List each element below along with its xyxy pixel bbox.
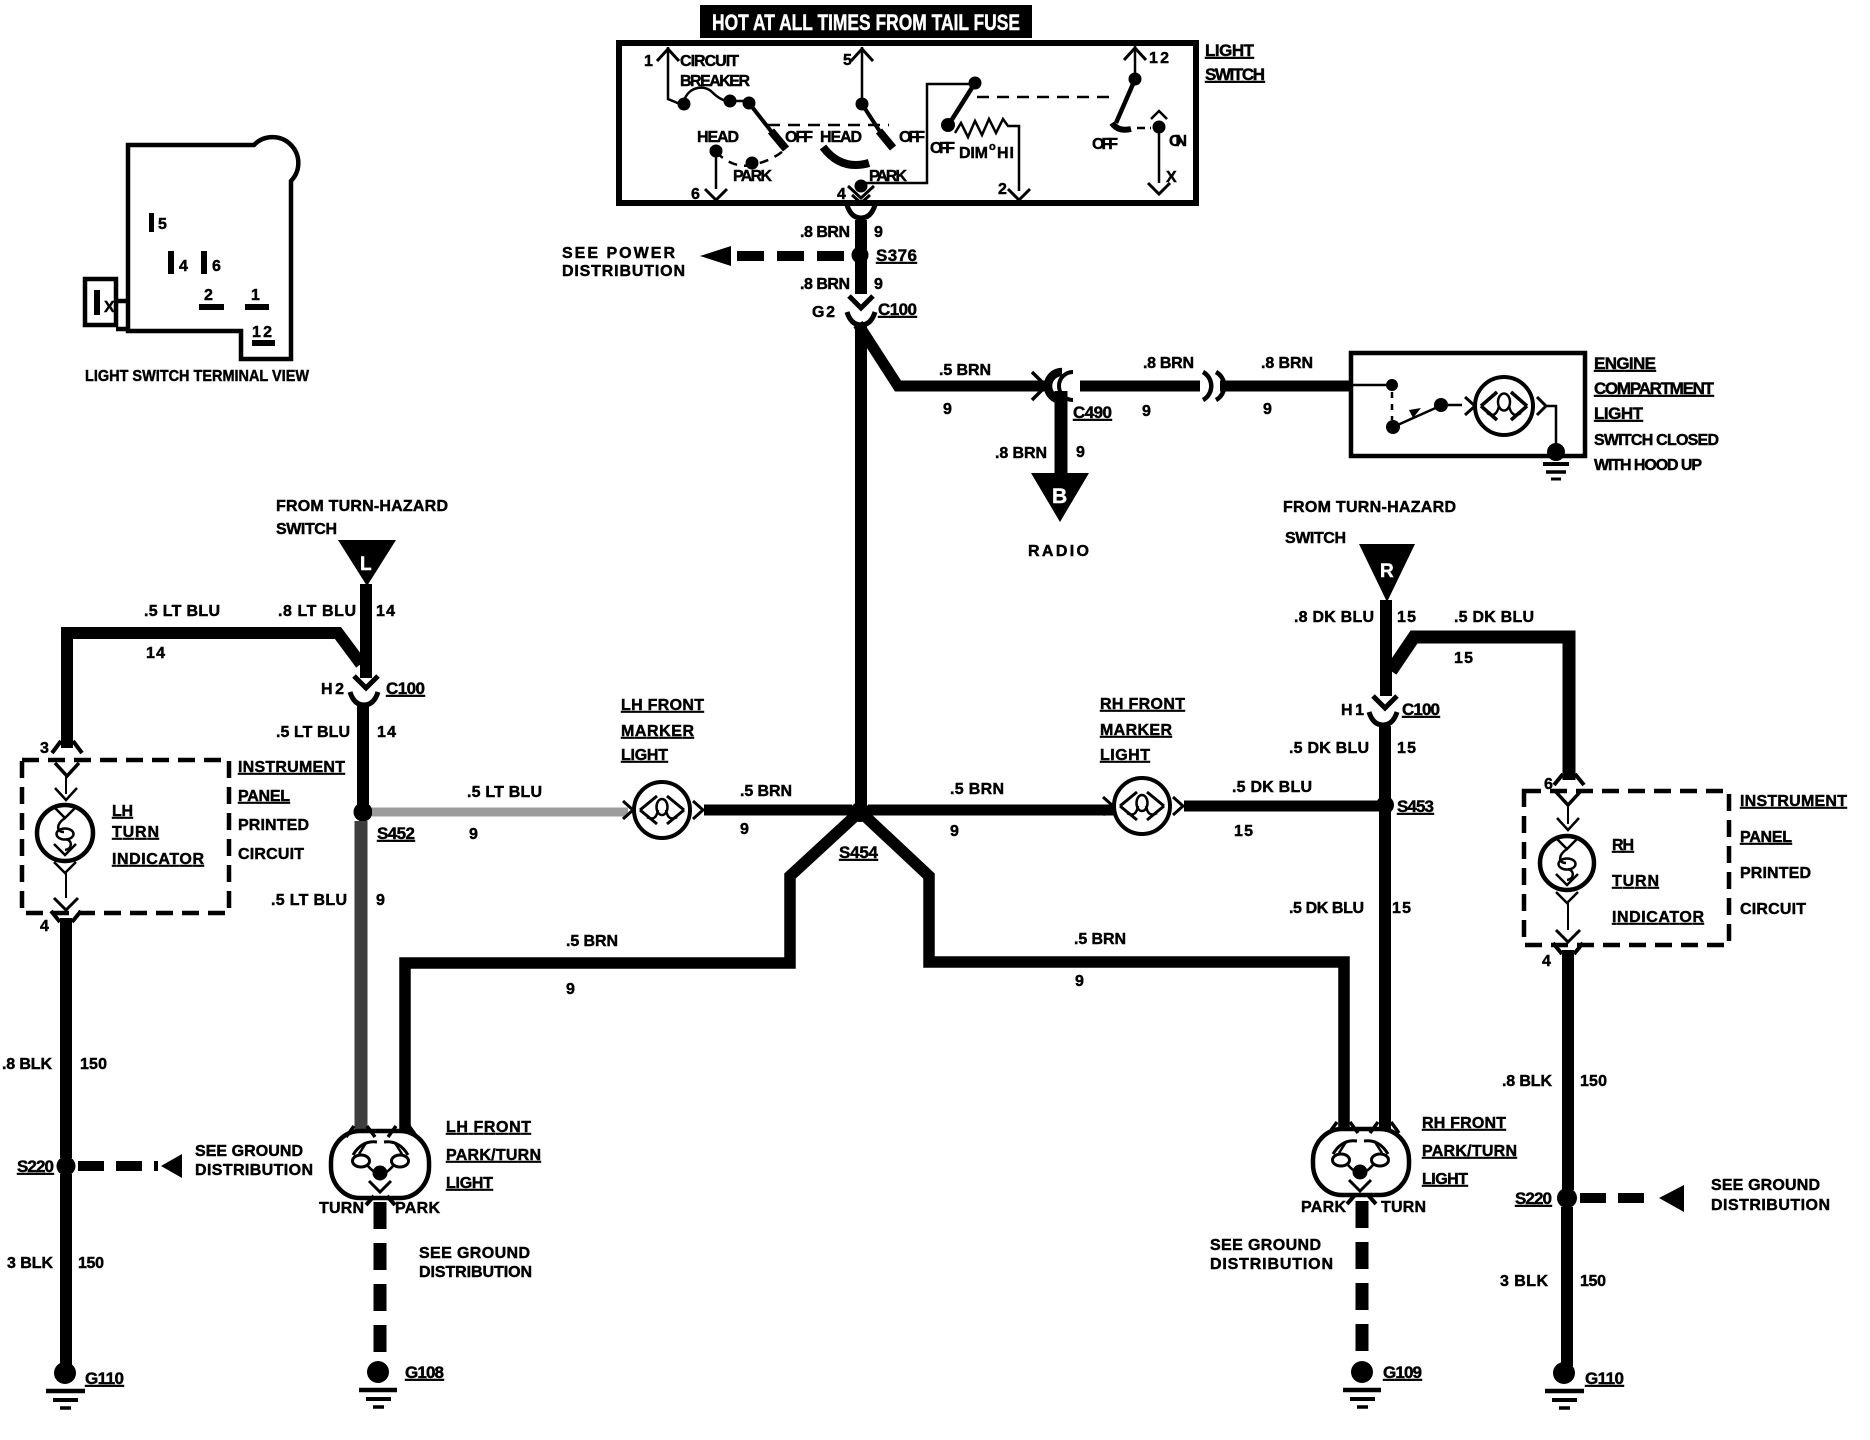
svg-text:RH: RH: [1612, 837, 1634, 854]
svg-text:14: 14: [146, 645, 165, 662]
svg-text:.8 LT BLU: .8 LT BLU: [278, 603, 356, 620]
svg-text:LH FRONT: LH FRONT: [621, 697, 704, 714]
S454 branch left to LH park wire: [405, 817, 854, 1131]
engine light switch: [1352, 379, 1462, 434]
label .5 BRN 9: [939, 362, 991, 418]
svg-text:TURN: TURN: [112, 824, 159, 841]
svg-text:SWITCH: SWITCH: [1285, 530, 1346, 547]
ground G109: [1343, 1361, 1422, 1407]
svg-text:BREAKER: BREAKER: [680, 73, 750, 90]
wire S454 to RH marker: [868, 805, 1114, 816]
connector C490: [1032, 372, 1151, 422]
svg-text:CIRCUIT: CIRCUIT: [1740, 901, 1806, 918]
svg-text:2: 2: [204, 287, 213, 304]
instrument panel printed circuit labels left: [238, 759, 345, 863]
label from turn-hazard switch left: [276, 498, 448, 538]
see ground distribution label LH: [419, 1245, 532, 1281]
svg-text:WITH HOOD UP: WITH HOOD UP: [1594, 457, 1702, 474]
svg-text:MARKER: MARKER: [1100, 722, 1172, 739]
light switch terminal view outline: [85, 137, 298, 359]
svg-text:9: 9: [376, 892, 385, 909]
connector C100 G2: [812, 296, 917, 325]
pin 3 arrow into LH indicator: [40, 740, 82, 776]
RH front park/turn light: [1313, 1122, 1409, 1195]
label .5 DK BLU 15: [1232, 779, 1312, 840]
label .8 BRN 9: [800, 224, 883, 241]
svg-text:1: 1: [251, 287, 260, 304]
RH turn indicator lamp: [1540, 805, 1594, 942]
LH front park/turn light: [331, 1126, 429, 1198]
connector H1 C100: [1341, 696, 1440, 725]
svg-text:14: 14: [377, 724, 396, 741]
LH park/turn light name: [446, 1119, 541, 1192]
label .5 DK BLU 15: [1454, 609, 1534, 667]
svg-text:3 BLK: 3 BLK: [7, 1255, 53, 1272]
terminal view pin 12: [252, 324, 275, 346]
svg-text:.5 BRN: .5 BRN: [1074, 931, 1126, 948]
label .5 LT BLU 9: [271, 892, 385, 909]
circuit breaker CB: [678, 53, 756, 111]
dimmer resistor: [955, 119, 1019, 191]
svg-text:INDICATOR: INDICATOR: [1612, 909, 1704, 926]
svg-text:SEE GROUND: SEE GROUND: [195, 1143, 303, 1160]
svg-text:.5 DK BLU: .5 DK BLU: [1289, 900, 1364, 917]
RH marker labels: [1100, 696, 1185, 764]
wire branch to RH indicator: [1391, 637, 1569, 780]
splice S454: [839, 802, 879, 862]
terminal view pin 2: [199, 287, 224, 310]
RH park/turn light name: [1422, 1115, 1517, 1188]
svg-text:INDICATOR: INDICATOR: [112, 851, 204, 868]
svg-text:DISTRIBUTION: DISTRIBUTION: [1210, 1256, 1333, 1273]
label .8 BLK 150: [1502, 1073, 1607, 1090]
wire branch to pin3: [67, 627, 361, 748]
ON contact: [1137, 111, 1187, 150]
svg-text:150: 150: [78, 1255, 104, 1272]
LH turn indicator lamp: [37, 776, 93, 910]
grey wire S452 down to LH turn terminal: [355, 821, 368, 1131]
svg-text:DISTRIBUTION: DISTRIBUTION: [419, 1264, 532, 1281]
svg-text:C100: C100: [878, 300, 917, 319]
svg-text:15: 15: [1234, 823, 1253, 840]
svg-text:PARK: PARK: [395, 1200, 440, 1217]
dashed linkage dimmer-sw12: [977, 96, 1113, 99]
svg-text:SWITCH: SWITCH: [276, 521, 337, 538]
ground G108: [359, 1361, 444, 1407]
svg-text:S220: S220: [17, 1157, 54, 1176]
svg-text:.8 BRN: .8 BRN: [800, 276, 850, 293]
terminal view pin X: [94, 290, 115, 316]
svg-text:ON: ON: [1169, 133, 1187, 150]
triangle R: [1359, 544, 1415, 602]
RH light ground wire dashed: [1347, 1195, 1376, 1358]
svg-text:.5 LT BLU: .5 LT BLU: [271, 892, 347, 909]
svg-text:9: 9: [566, 981, 575, 998]
svg-text:.8 BLK: .8 BLK: [1502, 1073, 1552, 1090]
engine compartment light box: [1351, 353, 1585, 456]
svg-text:9: 9: [469, 826, 478, 843]
svg-text:.8 BRN: .8 BRN: [1261, 355, 1313, 372]
svg-text:.5 DK BLU: .5 DK BLU: [1454, 609, 1534, 626]
svg-text:4: 4: [837, 186, 846, 203]
svg-text:1: 1: [644, 53, 653, 70]
svg-text:X: X: [1166, 169, 1177, 186]
svg-text:.5 BRN: .5 BRN: [939, 362, 991, 379]
svg-text:.5 LT BLU: .5 LT BLU: [467, 784, 542, 801]
svg-text:R: R: [1380, 561, 1394, 582]
terminal view pin 1: [245, 287, 269, 310]
wire L to H2: [360, 584, 372, 678]
svg-text:SEE GROUND: SEE GROUND: [1711, 1177, 1820, 1194]
pin 5: [843, 47, 873, 100]
svg-text:6: 6: [212, 258, 221, 275]
svg-text:.5 LT BLU: .5 LT BLU: [144, 603, 220, 620]
label .8 LT BLU 14: [278, 603, 395, 620]
svg-text:PRINTED: PRINTED: [238, 817, 309, 834]
wire park dot to dimmer: [861, 84, 970, 183]
svg-text:PANEL: PANEL: [238, 788, 290, 805]
svg-text:9: 9: [1075, 973, 1084, 990]
svg-text:PANEL: PANEL: [1740, 829, 1792, 846]
svg-text:.8 BRN: .8 BRN: [995, 445, 1047, 462]
label .8 DK BLU 15: [1294, 609, 1416, 626]
wire connector to engine light box: [1220, 381, 1351, 392]
svg-text:150: 150: [1580, 1073, 1607, 1090]
ground G110 left: [46, 1362, 124, 1408]
svg-text:.5 LT BLU: .5 LT BLU: [276, 724, 350, 741]
svg-text:15: 15: [1397, 740, 1416, 757]
svg-text:ENGINE: ENGINE: [1594, 354, 1656, 373]
RH park/turn labels PARK TURN: [1301, 1199, 1426, 1216]
svg-text:4: 4: [1542, 953, 1551, 970]
svg-text:o: o: [989, 141, 996, 153]
label .8 BRN 9: [995, 444, 1085, 462]
svg-text:LH: LH: [112, 803, 133, 820]
svg-text:H1: H1: [1341, 702, 1364, 719]
svg-text:9: 9: [1142, 403, 1151, 420]
svg-text:RH FRONT: RH FRONT: [1100, 696, 1185, 713]
LH park/turn labels TURN PARK: [319, 1200, 440, 1217]
svg-text:SWITCH: SWITCH: [1205, 65, 1265, 84]
svg-text:9: 9: [950, 823, 959, 840]
svg-text:B: B: [1052, 485, 1067, 508]
see ground distribution label RH: [1210, 1237, 1333, 1273]
pin X: [1148, 133, 1177, 194]
svg-text:CIRCUIT: CIRCUIT: [238, 846, 304, 863]
label 3 BLK 150: [7, 1255, 104, 1272]
splice S220 left: [17, 1143, 313, 1179]
svg-text:150: 150: [1580, 1273, 1606, 1290]
terminal view pin 6: [201, 251, 221, 275]
terminal view pin 5: [149, 213, 167, 233]
pin 6 arrow into RH indicator: [1544, 774, 1584, 805]
svg-text:L: L: [360, 554, 372, 575]
svg-text:LIGHT: LIGHT: [621, 747, 668, 764]
svg-text:9: 9: [740, 821, 749, 838]
RH turn indicator dashed box: [1524, 791, 1729, 945]
svg-text:.5 DK BLU: .5 DK BLU: [1232, 779, 1312, 796]
svg-text:.5 BRN: .5 BRN: [740, 783, 792, 800]
svg-text:PARK: PARK: [733, 168, 772, 185]
RH turn indicator labels: [1612, 837, 1704, 926]
instrument panel printed circuit labels right: [1740, 793, 1847, 918]
svg-text:PARK: PARK: [1301, 1199, 1346, 1216]
label .5 BRN 9: [1074, 931, 1126, 990]
svg-text:OFF: OFF: [785, 129, 813, 146]
LH front marker light lamp: [623, 782, 703, 838]
svg-text:.8 DK BLU: .8 DK BLU: [1294, 609, 1374, 626]
switch blade pin12: [1092, 73, 1142, 154]
wire LH marker to S454: [704, 805, 852, 816]
splice S220 right: [1515, 1177, 1830, 1214]
banner HOT AT ALL TIMES FROM TAIL FUSE: [700, 5, 1032, 38]
svg-text:2: 2: [998, 181, 1007, 198]
svg-text:G109: G109: [1383, 1363, 1422, 1382]
PARK contact left + dashed arc: [716, 151, 783, 185]
dashed linkage blade1-blade5: [768, 124, 889, 127]
wire trunk pin4 to S454: [855, 220, 867, 294]
svg-text:G110: G110: [1585, 1369, 1624, 1388]
connector H2 C100: [321, 676, 425, 705]
dimmer switch: [930, 77, 982, 158]
svg-text:LIGHT: LIGHT: [1594, 404, 1644, 423]
svg-text:.5 BRN: .5 BRN: [566, 933, 618, 950]
label .8 BRN 9: [1261, 355, 1313, 418]
connector under pin 4: [847, 205, 875, 218]
ground G110 right: [1545, 1362, 1624, 1408]
label .5 BRN 9: [950, 781, 1004, 840]
svg-text:TURN: TURN: [1612, 873, 1659, 890]
svg-text:LIGHT: LIGHT: [1422, 1171, 1468, 1188]
svg-text:INSTRUMENT: INSTRUMENT: [1740, 793, 1847, 810]
label .5 LT BLU 14: [144, 603, 220, 662]
grey wire S452 to LH marker (.5 LT BLU): [372, 808, 628, 817]
triangle L: [338, 540, 396, 586]
inline connector right of C490: [1203, 372, 1224, 400]
label LIGHT SWITCH: [1205, 41, 1265, 84]
svg-text:5: 5: [843, 52, 852, 69]
svg-text:H2: H2: [321, 681, 344, 698]
label .5 BRN 9: [740, 783, 792, 838]
see power distribution arrow: [562, 245, 855, 280]
svg-text:.5 BRN: .5 BRN: [950, 781, 1004, 798]
svg-text:SEE GROUND: SEE GROUND: [419, 1245, 530, 1262]
svg-text:OFF: OFF: [899, 129, 925, 146]
svg-text:G2: G2: [812, 304, 835, 321]
pin 2: [998, 181, 1030, 200]
svg-text:HEAD: HEAD: [820, 129, 862, 146]
svg-text:SWITCH CLOSED: SWITCH CLOSED: [1594, 432, 1719, 449]
PARK contact center: [855, 168, 908, 193]
svg-text:SEE POWER: SEE POWER: [562, 245, 675, 262]
engine light lamp: [1465, 377, 1556, 447]
svg-text:MARKER: MARKER: [621, 723, 694, 740]
wire RH marker to S453: [1184, 801, 1380, 812]
engine light ground: [1543, 443, 1569, 479]
wire C490 to connector: [1080, 381, 1200, 392]
wire R to H1: [1380, 600, 1392, 696]
svg-text:3 BLK: 3 BLK: [1500, 1273, 1548, 1290]
svg-text:S376: S376: [876, 246, 917, 265]
svg-text:LIGHT: LIGHT: [1205, 41, 1255, 60]
HEAD contact left: [697, 129, 739, 158]
pin 4 wire below LH indicator: [40, 911, 81, 1158]
svg-text:HOT AT ALL TIMES FROM TAIL FUS: HOT AT ALL TIMES FROM TAIL FUSE: [712, 10, 1020, 35]
LH turn indicator labels: [112, 803, 204, 868]
svg-text:RADIO: RADIO: [1028, 543, 1089, 560]
label .5 BRN 9: [566, 933, 618, 998]
svg-text:G110: G110: [85, 1369, 124, 1388]
svg-text:HEAD: HEAD: [697, 129, 739, 146]
svg-text:INSTRUMENT: INSTRUMENT: [238, 759, 345, 776]
svg-text:DIM: DIM: [959, 145, 988, 162]
svg-text:TURN: TURN: [1381, 1199, 1426, 1216]
pin 4: [837, 186, 874, 203]
label .8 BRN 9: [800, 276, 883, 293]
wire S220 right to G110: [1561, 1207, 1573, 1366]
svg-text:PRINTED: PRINTED: [1740, 865, 1811, 882]
svg-text:DISTRIBUTION: DISTRIBUTION: [195, 1162, 313, 1179]
label .5 LT BLU 14: [276, 724, 396, 741]
label .8 BRN 9: [1143, 355, 1194, 372]
svg-text:LIGHT: LIGHT: [1100, 747, 1150, 764]
svg-text:C100: C100: [386, 679, 425, 698]
pin 1: [644, 47, 680, 104]
svg-text:S220: S220: [1515, 1189, 1552, 1208]
wire S220 to G110: [60, 1174, 72, 1366]
label 3 BLK 150: [1500, 1273, 1606, 1290]
svg-text:C490: C490: [1073, 403, 1112, 422]
svg-text:G108: G108: [405, 1363, 444, 1382]
svg-text:.8 BRN: .8 BRN: [800, 224, 850, 241]
svg-text:14: 14: [376, 603, 395, 620]
terminal view pin 4: [168, 251, 188, 275]
svg-text:DISTRIBUTION: DISTRIBUTION: [1711, 1197, 1830, 1214]
svg-text:RH FRONT: RH FRONT: [1422, 1115, 1506, 1132]
svg-text:6: 6: [691, 186, 700, 203]
svg-text:C100: C100: [1402, 700, 1440, 719]
switch blade pin5 side: [820, 98, 925, 149]
LH marker labels: [621, 697, 704, 764]
svg-text:S452: S452: [377, 824, 415, 843]
svg-text:LIGHT SWITCH TERMINAL VIEW: LIGHT SWITCH TERMINAL VIEW: [85, 368, 310, 385]
svg-text:HI: HI: [997, 145, 1014, 162]
svg-text:OFF: OFF: [1092, 136, 1118, 153]
splice S376: [852, 246, 918, 265]
svg-text:9: 9: [874, 224, 883, 241]
svg-text:4: 4: [40, 918, 49, 935]
label from turn-hazard switch right: [1283, 499, 1456, 547]
svg-text:FROM TURN-HAZARD: FROM TURN-HAZARD: [1283, 499, 1456, 516]
label .8 BLK 150: [2, 1056, 107, 1073]
switch blade pin1 side: [749, 103, 813, 149]
svg-text:.5 DK BLU: .5 DK BLU: [1289, 740, 1369, 757]
svg-text:9: 9: [874, 276, 883, 293]
wire H2 to S452: [357, 706, 369, 806]
svg-text:15: 15: [1392, 900, 1411, 917]
svg-text:LH FRONT: LH FRONT: [446, 1119, 531, 1136]
svg-text:CIRCUIT: CIRCUIT: [680, 53, 739, 70]
svg-text:9: 9: [1076, 444, 1085, 461]
LH light ground wire dashed: [366, 1196, 395, 1358]
svg-text:150: 150: [80, 1056, 107, 1073]
svg-text:15: 15: [1454, 650, 1473, 667]
svg-text:PARK/TURN: PARK/TURN: [446, 1147, 541, 1164]
svg-text:S454: S454: [839, 843, 879, 862]
wire branch C100 to C490: [858, 324, 1045, 386]
svg-text:9: 9: [943, 401, 952, 418]
pin 6: [691, 157, 727, 203]
svg-text:15: 15: [1397, 609, 1416, 626]
svg-text:3: 3: [40, 740, 49, 757]
svg-text:FROM TURN-HAZARD: FROM TURN-HAZARD: [276, 498, 448, 515]
splice S452: [354, 803, 479, 844]
svg-text:SEE GROUND: SEE GROUND: [1210, 1237, 1321, 1254]
svg-text:4: 4: [179, 258, 188, 275]
svg-text:COMPARTMENT: COMPARTMENT: [1594, 379, 1715, 398]
svg-text:DISTRIBUTION: DISTRIBUTION: [562, 263, 685, 280]
S454 branch right to RH park wire: [866, 817, 1344, 1130]
light switch box outline: [619, 43, 1196, 203]
engine light labels: [1594, 354, 1719, 474]
thick park wiper arc: [823, 147, 869, 165]
LH turn indicator dashed box: [22, 760, 229, 913]
svg-text:OFF: OFF: [930, 140, 955, 157]
svg-text:9: 9: [1263, 401, 1272, 418]
arrow B to radio: [1028, 473, 1089, 560]
svg-text:.8 BRN: .8 BRN: [1143, 355, 1194, 372]
svg-text:.8 BLK: .8 BLK: [2, 1056, 52, 1073]
svg-text:PARK/TURN: PARK/TURN: [1422, 1143, 1517, 1160]
wire drop to radio: [1055, 391, 1068, 474]
wire H1 through S453 to RH turn terminal: [1379, 726, 1391, 1130]
pin 12: [1124, 46, 1169, 74]
svg-text:TURN: TURN: [319, 1200, 364, 1217]
pin 4 wire below RH indicator: [1542, 943, 1583, 1190]
label .5 DK BLU 15: [1289, 900, 1411, 917]
RH front marker light lamp: [1103, 778, 1183, 834]
svg-text:5: 5: [158, 216, 167, 233]
svg-text:X: X: [104, 299, 115, 316]
label .5 DK BLU 15: [1289, 740, 1416, 757]
svg-text:LIGHT: LIGHT: [446, 1175, 493, 1192]
svg-text:S453: S453: [1397, 797, 1434, 816]
splice S453: [1376, 796, 1434, 816]
